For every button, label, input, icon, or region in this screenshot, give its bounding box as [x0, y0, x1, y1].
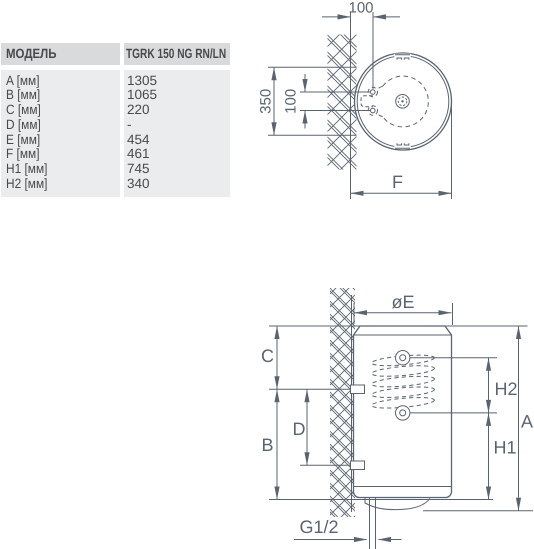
- table row values column: [127, 74, 157, 192]
- svg-text:D: D: [293, 419, 306, 439]
- tank outer ring (top view): [355, 53, 452, 150]
- dashed inner circle (top view): [383, 76, 429, 127]
- tank body outline (side view): [354, 326, 452, 498]
- coil turn 4: [371, 385, 435, 399]
- center fitting outer circle: [396, 95, 410, 109]
- dimension D line and arrows: [304, 389, 309, 465]
- dimension øE lines and arrows: [354, 303, 453, 325]
- center fitting dot: [401, 100, 403, 102]
- anchor boss dashed circle upper: [368, 87, 377, 96]
- table header left cell: [1, 43, 120, 65]
- table body right cell: [124, 70, 230, 197]
- svg-text:F: F: [392, 172, 403, 192]
- dimension C line and arrows: [274, 326, 279, 389]
- svg-text:A: A: [521, 412, 533, 432]
- tank top seam line: [354, 334, 452, 336]
- keyhole dashed connector upper: [377, 86, 383, 90]
- anchor boss dashed circle lower: [368, 106, 377, 115]
- wall surface line (side view): [351, 295, 353, 512]
- dimension 100 (left, anchors) label: [283, 89, 300, 114]
- wall hatch (top view): [328, 35, 357, 170]
- wall bracket plate dashed (top view): [361, 96, 373, 107]
- upper bracket centerline extension: [269, 388, 351, 390]
- table header label МОДЕЛЬ: [6, 47, 56, 62]
- table header model TGRK 150 NG RN/LN: [126, 47, 226, 62]
- tank inner ring (top view): [357, 56, 449, 148]
- center fitting star pattern: [398, 97, 407, 106]
- svg-text:350: 350: [258, 89, 275, 114]
- upper flange extension line: [410, 357, 497, 359]
- lower wall bracket (side view): [351, 461, 365, 470]
- bottom notch on ring: [394, 143, 411, 149]
- dimension H1 line and arrows: [486, 413, 491, 500]
- dimension H2 line and arrows: [486, 358, 491, 413]
- coil upper flange: [396, 351, 410, 365]
- svg-text:H1: H1: [493, 438, 516, 458]
- lower flange extension line: [410, 412, 497, 414]
- svg-text:100: 100: [348, 0, 373, 17]
- table row labels column: [6, 74, 47, 192]
- tank bottom extension line (B/H1 bottom): [269, 499, 493, 501]
- dimension 100 (top) lines and arrows: [322, 12, 400, 89]
- dimension A line and arrows: [516, 326, 521, 511]
- coil turn 5: [371, 396, 435, 410]
- outlet pipe: [370, 498, 376, 549]
- top notch on ring: [394, 54, 411, 60]
- upper wall bracket (side view): [351, 385, 365, 394]
- tank bottom seam line: [354, 486, 452, 488]
- coil turn 2: [371, 364, 435, 378]
- svg-text:G1/2: G1/2: [299, 517, 338, 537]
- overall bottom extension line (A bottom): [423, 510, 533, 512]
- svg-text:B: B: [261, 435, 273, 455]
- tank top extension line (A/C top): [269, 325, 528, 327]
- dimension 350 (left) lines and arrows: [268, 67, 357, 135]
- wall surface line (top view): [350, 12, 352, 200]
- dimension 100 (left) lines and arrows: [300, 74, 370, 129]
- keyhole dashed connector lower: [377, 113, 383, 117]
- lower bracket centerline extension: [300, 464, 351, 466]
- dimension B line and arrows: [274, 389, 279, 499]
- svg-text:100: 100: [283, 89, 300, 114]
- bottom cover belly curve: [365, 498, 430, 510]
- dimension F lines and arrows: [351, 98, 452, 199]
- dimension 350 (left) label: [258, 89, 275, 114]
- dimension G1/2 lines and arrows: [294, 537, 402, 542]
- anchor bolt lower (top view): [371, 108, 376, 113]
- coil lower flange: [396, 406, 410, 420]
- svg-text:H2: H2: [494, 379, 517, 399]
- coil turn 1: [371, 353, 435, 367]
- coil turn 3: [371, 374, 435, 388]
- svg-text:C: C: [261, 346, 274, 366]
- svg-text:øE: øE: [391, 292, 414, 312]
- table body left cell: [1, 70, 120, 197]
- table header right cell: [124, 43, 230, 65]
- heat exchanger coil (dashed): [371, 353, 435, 410]
- wall hatch (side view): [330, 288, 355, 517]
- anchor bolt upper (top view): [371, 90, 376, 95]
